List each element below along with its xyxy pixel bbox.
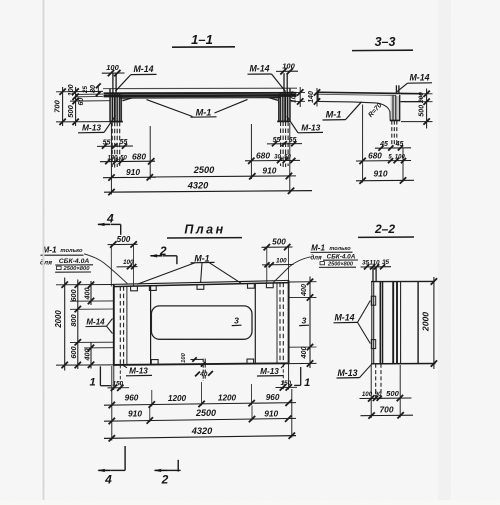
dimension line 500/100 vertical: [75, 87, 77, 126]
section 1-1 left leg bar lines: [111, 92, 113, 121]
dimension 100 above right leg: [276, 70, 298, 72]
plan right edge: [288, 280, 290, 363]
extension lines of 3-3 dims: [362, 105, 364, 183]
plan top edge anchor tab 1: [131, 286, 138, 291]
extension lines 500 dim left: [110, 245, 112, 287]
section 3-3 title underline: [352, 49, 413, 51]
extension line leg bottom left: [56, 121, 110, 123]
dimension 4320 of section 1-1: [104, 191, 312, 193]
extension line 400 bottom left: [84, 347, 114, 349]
plan top edge anchor tab 2: [149, 286, 156, 291]
extension line 3-3 stub top: [401, 93, 433, 95]
plan right extra rib line: [276, 283, 278, 364]
right haunch ink fill: [268, 96, 278, 100]
note left leader curve: [84, 254, 127, 284]
extension dashed bars below plan right: [282, 364, 284, 389]
section 1-1 right leg bottom: [277, 120, 290, 122]
dimension row 100 90 500 of 2-2: [360, 397, 412, 400]
extension line mesh lower left: [76, 96, 103, 98]
dimension line right chain 3-3: [426, 89, 428, 129]
section 1-1 left leg inner face: [120, 97, 122, 122]
dimension line 100 right vertical: [299, 87, 301, 107]
section 3-3 leg right face: [399, 95, 401, 121]
extension lines below legs 1-1: [110, 123, 112, 195]
extension line slab bottom left: [70, 100, 110, 102]
section 2-2 right face: [417, 282, 419, 364]
section 1-1 slab mesh line upper: [104, 92, 297, 95]
plan bottom edge anchor tab left: [151, 360, 158, 365]
extension line plan bottom edge right: [289, 362, 317, 364]
dimension 100 below 500 left: [117, 266, 138, 268]
section 1-1 left leg bottom: [110, 121, 123, 123]
extension line slab top left: [56, 90, 103, 92]
extension line 400 top left: [70, 300, 114, 302]
section 1-1 right leg protruding bars above slab: [283, 73, 285, 92]
plan bottom edge anchor tab right: [247, 359, 254, 364]
scan speckle noise overlay: [0, 0, 1, 1]
plan top edge anchor tab 5: [266, 283, 273, 288]
dimension 45 45 of 3-3: [375, 147, 411, 149]
section 3-3 slab left end face: [317, 92, 319, 101]
extension verticals plan dims: [111, 366, 113, 441]
dimension row 680 50 100 of 3-3: [356, 160, 411, 163]
section 2-2 top edge: [371, 280, 435, 282]
plan bottom edge: [113, 363, 289, 365]
note right underline1: [311, 251, 353, 253]
dimension 150 plan bottom left: [108, 387, 130, 389]
extension line 600 top left: [70, 308, 114, 310]
plan left edge: [113, 284, 115, 365]
section 3-3 slab bottom with haunch curve: [318, 101, 390, 120]
section 2-2 upper weld plate: [371, 296, 375, 305]
section 1-1 slab mesh line lower (M-1 mesh): [104, 94, 297, 97]
dimension 500 top left of plan: [108, 243, 138, 245]
section 1-1 right leg dowel bars below (dashed): [280, 122, 282, 167]
scan seam faint vertical left: [43, 0, 45, 500]
dimension line 700 vertical: [62, 87, 64, 126]
dimension line 600 800 600 left: [77, 280, 79, 370]
section 3-3 leg bottom: [390, 120, 400, 122]
extension line 800-600 boundary left: [70, 341, 114, 343]
note left underline3: [55, 271, 91, 273]
section 3-3 right stub bottom line: [401, 101, 422, 103]
note left underline2: [55, 264, 93, 266]
dimension 100 below 500 right: [262, 264, 294, 266]
section 1-1 right haunch slope: [269, 98, 279, 101]
section 2-2 title underline: [358, 236, 414, 238]
right leg ink fill: [278, 92, 290, 121]
dimension 55 55 left leg: [97, 145, 133, 147]
section 3-3 leg bar lines: [392, 96, 394, 121]
section 1-1 slab top surface line: [103, 87, 297, 89]
extension line slab bottom right: [292, 100, 305, 102]
plan top edge inner line: [113, 283, 289, 287]
section 1-1 right leg bar lines: [287, 92, 289, 122]
section 1-1 left leg protruding bars above slab: [112, 74, 114, 93]
section marker 4 bottom: [124, 446, 126, 470]
plan top edge outer line: [113, 280, 289, 284]
section 3-3 slab inner line: [318, 94, 396, 95]
section 2-2 left bar lines: [371, 282, 373, 364]
plan bottom bar small dim line: [191, 358, 204, 360]
plan right leg hidden bars (dashed): [279, 283, 281, 364]
dimension 55 55 right leg: [267, 143, 302, 145]
dimension 100 above left leg: [102, 72, 125, 74]
dimension line 2000 left: [64, 278, 66, 371]
left leg ink fill: [110, 93, 122, 122]
extension verticals 2-2 dims: [370, 365, 372, 418]
extension line plan bottom edge to left chain: [56, 364, 113, 366]
note right underline2: [323, 259, 358, 261]
small hook dim line 80: [97, 85, 99, 95]
dimension row 100 50 680 left: [100, 160, 155, 163]
dimension 140 left end of 3-3: [316, 88, 318, 107]
section 2-2 inner mesh double line: [392, 282, 394, 364]
plan inner rib line left: [150, 286, 152, 365]
extension line plan top edge right: [289, 281, 317, 283]
section 3-3 protruding bar at top: [395, 85, 397, 93]
section 1-1 left haunch slope: [123, 98, 133, 101]
section 1-1 left leg outer face: [109, 89, 111, 122]
extension line plan top edge to left chain: [56, 284, 113, 286]
section 3-3 leg ink fill: [391, 96, 400, 120]
plan left leg hidden bars (dashed): [119, 286, 121, 364]
dimension 910 left: [103, 176, 156, 179]
dimension 150 plan bottom right: [276, 386, 298, 388]
section 1-1 right leg outer face: [289, 88, 291, 121]
dimension row 680 50 100 right: [245, 159, 300, 161]
section marker 2 bottom: [166, 469, 181, 471]
section 3-3 right stub end face: [420, 94, 422, 102]
left haunch ink fill: [122, 97, 132, 101]
dimension row 910 2500 910 plan: [104, 418, 296, 421]
dimension 2500: [150, 175, 253, 178]
plan title underline: [167, 237, 242, 239]
dimension 700 of 2-2: [361, 414, 414, 417]
extension line 3-3 leg bottom: [401, 121, 433, 123]
extension dashed bars below plan left: [119, 365, 121, 390]
section 3-3 slab top line: [318, 92, 421, 93]
dimension row 960 1200 1200 960: [104, 403, 296, 406]
section 2-2 dowel bars below (dashed): [375, 364, 377, 400]
dimension 910 right: [252, 175, 296, 177]
dimension 910 of 3-3: [356, 179, 414, 182]
section 2-2 inner single line: [400, 282, 402, 364]
plan opening 2500x800 rounded rectangle: [151, 306, 252, 339]
section 2-2 bottom edge: [371, 363, 436, 365]
extension line slab top right: [292, 91, 305, 93]
dimension 35 110 35 top of 2-2: [361, 266, 392, 268]
note left underline1: [41, 254, 84, 256]
dimension line 400 top/bottom left: [90, 281, 92, 305]
section 2-2 top protruding bar: [372, 268, 374, 282]
dimension 2000 right of 2-2: [433, 277, 435, 369]
section 1-1 left leg dowel bars below (dashed): [111, 122, 113, 167]
note right S-curve leader: [273, 257, 311, 283]
plan left extra rib line: [126, 286, 128, 365]
extension lines 500 dim right: [266, 247, 268, 283]
extension line 400 right top: [289, 296, 317, 298]
plan top edge anchor tab 3 (center): [197, 285, 204, 290]
note left line3: [57, 266, 62, 269]
section 3-3 dowel bars below leg (dashed): [391, 121, 393, 146]
extension line mesh upper left: [76, 93, 103, 95]
section 1-1 right leg inner face: [278, 96, 280, 121]
extension line 3-3 stub bottom: [404, 101, 433, 103]
section 2-2 lower weld plate: [371, 340, 375, 349]
dimension 4320 plan: [104, 436, 296, 439]
note right underline3: [319, 266, 356, 268]
scan faint band right: [438, 0, 451, 500]
section 1-1 slab bottom line: [119, 97, 281, 99]
dimension 500 top right of plan: [262, 246, 293, 248]
section 1-1 title underline: [172, 46, 235, 48]
section 2-2 concrete left face double line: [379, 282, 381, 364]
note right line3: [320, 262, 324, 265]
plan top edge anchor tab 4: [248, 283, 255, 288]
extension line 400 right bottom: [289, 346, 317, 348]
plan bottom protruding bar (dashed): [202, 359, 204, 381]
dimension line 400 right: [309, 277, 311, 369]
plan inner rib line right: [254, 283, 256, 363]
